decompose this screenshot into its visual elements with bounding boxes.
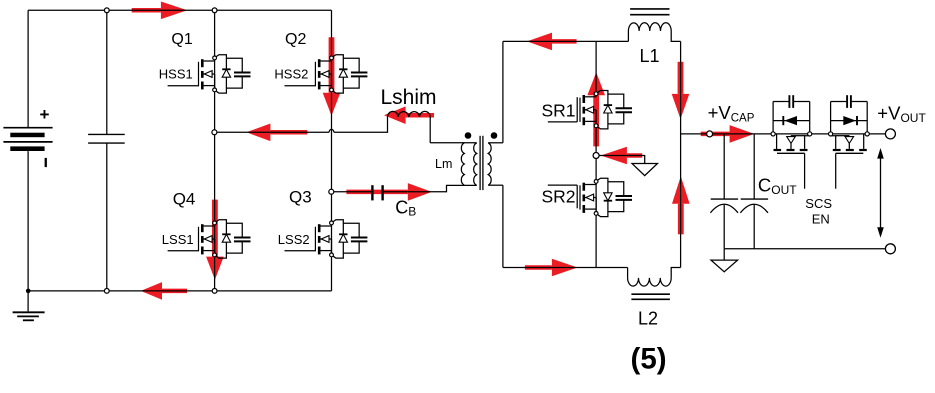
svg-text:Q4: Q4 [173,189,196,208]
svg-text:LSS2: LSS2 [278,232,310,247]
svg-text:Q2: Q2 [285,31,306,48]
svg-text:L1: L1 [640,46,660,66]
svg-text:HSS1: HSS1 [159,66,193,81]
svg-text:LSS1: LSS1 [162,232,194,247]
svg-text:Q3: Q3 [289,188,312,207]
svg-text:L2: L2 [638,309,658,329]
svg-text:Lm: Lm [435,157,452,171]
svg-text:Q1: Q1 [171,31,192,48]
svg-text:EN: EN [812,212,830,227]
svg-text:(5): (5) [631,343,667,376]
svg-text:SR2: SR2 [542,186,576,206]
svg-text:SCS: SCS [805,196,832,211]
svg-text:Lshim: Lshim [381,86,437,109]
svg-text:HSS2: HSS2 [274,66,308,81]
svg-text:+: + [40,105,50,124]
svg-text:SR1: SR1 [542,100,576,120]
